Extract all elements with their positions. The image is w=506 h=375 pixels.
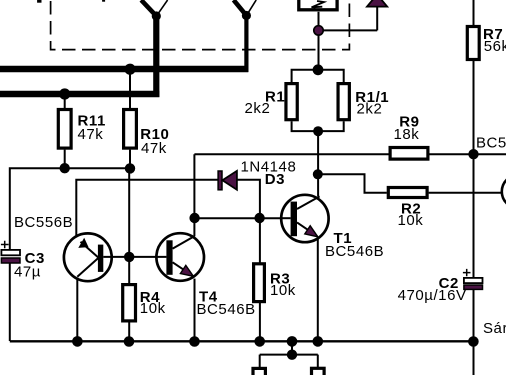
svg-text:10k: 10k [140,300,166,317]
svg-text:D3: D3 [265,171,285,188]
svg-text:470µ/16V: 470µ/16V [398,287,467,304]
svg-text:2k2: 2k2 [357,101,383,118]
svg-text:10k: 10k [398,212,424,229]
svg-text:56k: 56k [484,38,506,55]
svg-text:47k: 47k [78,126,104,143]
svg-text:47k: 47k [141,140,167,157]
svg-text:10k: 10k [270,282,296,299]
svg-text:Sárg: Sárg [483,320,506,337]
svg-text:BC546B: BC546B [197,301,256,318]
svg-text:47µ: 47µ [14,264,41,281]
svg-text:BC54: BC54 [476,135,506,152]
svg-text:2k2: 2k2 [245,100,271,117]
svg-text:BC546B: BC546B [325,243,384,260]
svg-text:BC556B: BC556B [14,214,73,231]
svg-text:18k: 18k [394,126,420,143]
